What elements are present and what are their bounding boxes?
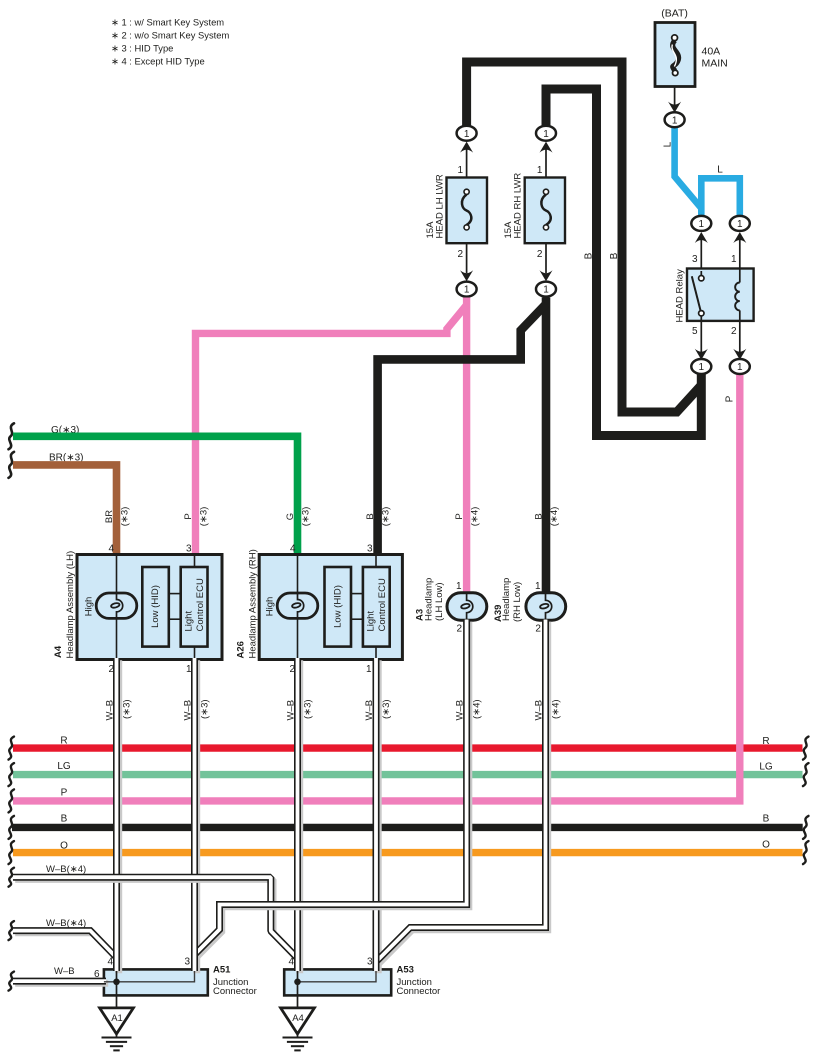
svg-text:1: 1 [699,219,705,230]
svg-text:2: 2 [456,624,462,635]
svg-text:(∗3): (∗3) [381,699,392,719]
svg-text:(∗4): (∗4) [472,699,483,719]
svg-text:4: 4 [108,544,114,555]
svg-text:Headlamp: Headlamp [423,578,434,621]
svg-text:3: 3 [367,957,373,968]
svg-text:Control ECU: Control ECU [377,578,388,631]
svg-text:B: B [763,813,770,824]
svg-text:LG: LG [759,762,773,773]
svg-text:4: 4 [107,957,113,968]
svg-text:HEAD Relay: HEAD Relay [675,269,686,323]
svg-text:3: 3 [184,957,190,968]
svg-text:A26: A26 [235,641,246,658]
svg-text:2: 2 [731,326,737,337]
svg-text:3: 3 [367,544,373,555]
svg-text:L: L [663,141,674,147]
svg-text:∗ 2 : w/o Smart Key System: ∗ 2 : w/o Smart Key System [111,29,229,40]
svg-text:B: B [609,252,620,259]
svg-text:(∗3): (∗3) [200,699,211,719]
svg-text:1: 1 [537,165,543,176]
svg-text:Low (HID): Low (HID) [150,585,161,628]
svg-text:(∗3): (∗3) [198,507,209,527]
svg-text:BR: BR [104,510,115,523]
svg-text:Light: Light [183,611,194,632]
svg-text:1: 1 [366,664,372,675]
svg-text:1: 1 [457,165,463,176]
svg-text:2: 2 [535,624,541,635]
svg-text:R: R [762,736,769,747]
svg-text:(∗3): (∗3) [119,507,130,527]
svg-text:∗ 4 : Except HID Type: ∗ 4 : Except HID Type [111,55,205,66]
svg-text:(∗3): (∗3) [303,699,314,719]
svg-text:1: 1 [456,581,462,592]
svg-text:1: 1 [737,362,743,373]
svg-text:Low (HID): Low (HID) [332,585,343,628]
svg-text:Headlamp: Headlamp [501,578,512,621]
svg-text:(∗3): (∗3) [300,507,311,527]
svg-text:B: B [534,513,545,519]
svg-text:B: B [365,513,376,519]
svg-text:6: 6 [94,969,100,980]
svg-text:1: 1 [731,254,737,265]
svg-text:High: High [84,597,95,617]
svg-text:High: High [265,597,276,617]
svg-text:P: P [454,513,465,519]
svg-text:(BAT): (BAT) [661,8,688,20]
svg-text:Connector: Connector [213,986,257,997]
svg-text:1: 1 [464,285,470,296]
svg-text:L: L [717,165,723,176]
svg-text:2: 2 [537,249,543,260]
svg-text:LG: LG [57,761,71,772]
svg-text:40A: 40A [702,45,721,57]
svg-text:(∗4): (∗4) [469,507,480,527]
svg-text:Headlamp Assembly (RH): Headlamp Assembly (RH) [247,549,258,658]
svg-text:1: 1 [543,129,549,140]
svg-text:(RH Low): (RH Low) [512,582,523,622]
svg-text:B: B [584,252,595,259]
svg-text:5: 5 [692,326,698,337]
svg-text:3: 3 [692,254,698,265]
svg-text:R: R [60,735,67,746]
svg-text:A1: A1 [111,1013,123,1024]
svg-text:W–B: W–B [54,966,75,977]
svg-text:Control ECU: Control ECU [195,578,206,631]
svg-text:1: 1 [737,219,743,230]
svg-text:O: O [762,839,770,850]
svg-text:A4: A4 [53,645,64,658]
svg-text:∗ 1 : w/ Smart Key System: ∗ 1 : w/ Smart Key System [111,16,224,27]
svg-text:1: 1 [535,581,541,592]
svg-text:A4: A4 [292,1013,304,1024]
svg-text:1: 1 [543,285,549,296]
svg-text:1: 1 [464,129,470,140]
svg-text:4: 4 [288,957,294,968]
svg-text:(∗4): (∗4) [549,507,560,527]
svg-text:P: P [61,787,68,798]
svg-text:1: 1 [699,362,705,373]
svg-text:W–B(∗4): W–B(∗4) [46,864,86,875]
svg-text:1: 1 [672,115,678,126]
svg-text:Headlamp Assembly (LH): Headlamp Assembly (LH) [65,551,76,659]
svg-text:P: P [183,513,194,519]
svg-text:B: B [61,814,68,825]
svg-text:Connector: Connector [397,986,441,997]
svg-text:(∗4): (∗4) [551,699,562,719]
svg-text:A53: A53 [397,965,414,976]
svg-text:HEAD LH LWR: HEAD LH LWR [435,174,446,238]
svg-text:A51: A51 [213,965,231,976]
svg-text:2: 2 [457,249,463,260]
svg-text:HEAD RH LWR: HEAD RH LWR [513,173,524,239]
svg-text:(∗3): (∗3) [380,507,391,527]
svg-text:O: O [60,840,68,851]
svg-text:(LH Low): (LH Low) [434,582,445,621]
svg-text:Light: Light [366,611,377,632]
svg-text:(∗3): (∗3) [122,699,133,719]
svg-text:MAIN: MAIN [702,57,728,69]
svg-text:4: 4 [290,544,296,555]
svg-text:∗ 3 : HID Type: ∗ 3 : HID Type [111,42,173,53]
svg-text:3: 3 [186,544,192,555]
svg-text:P: P [725,395,736,402]
svg-text:G: G [285,513,296,520]
